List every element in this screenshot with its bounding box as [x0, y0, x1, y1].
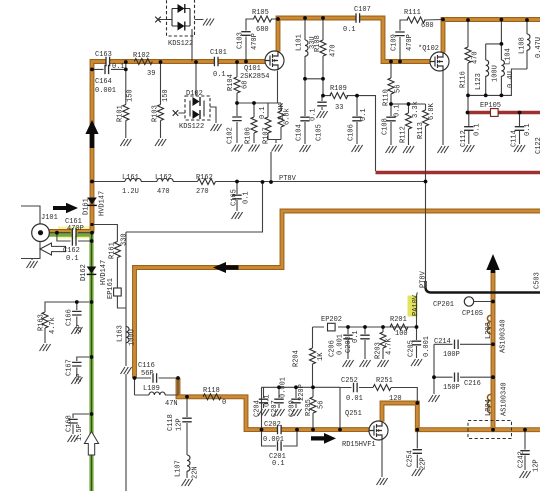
svg-text:CP10S: CP10S	[462, 310, 483, 318]
svg-text:22N: 22N	[192, 466, 200, 479]
svg-text:470P: 470P	[251, 33, 259, 50]
svg-text:0: 0	[222, 399, 226, 407]
svg-text:CP201: CP201	[433, 301, 454, 309]
svg-text:1K: 1K	[317, 352, 325, 361]
svg-text:150: 150	[162, 89, 170, 102]
svg-text:C207: C207	[271, 400, 279, 417]
svg-text:R110: R110	[383, 89, 391, 106]
svg-text:39: 39	[147, 70, 155, 78]
svg-text:C214: C214	[434, 338, 451, 346]
svg-text:0.1: 0.1	[213, 71, 226, 79]
svg-text:C166: C166	[66, 309, 74, 326]
svg-text:4.7k: 4.7k	[49, 317, 57, 334]
svg-text:2P: 2P	[76, 374, 84, 382]
svg-text:1.2U: 1.2U	[122, 188, 139, 196]
svg-text:D162: D162	[80, 264, 88, 281]
svg-text:470P: 470P	[406, 34, 414, 51]
svg-text:R106: R106	[245, 127, 253, 144]
svg-text:L109: L109	[143, 385, 160, 393]
svg-text:R163: R163	[38, 314, 46, 331]
svg-text:D102: D102	[186, 90, 203, 98]
svg-text:L162: L162	[155, 174, 172, 182]
svg-text:680: 680	[421, 22, 434, 30]
svg-text:C108: C108	[382, 118, 390, 135]
svg-text:100U: 100U	[492, 65, 500, 82]
svg-text:D161: D161	[83, 198, 91, 215]
svg-text:L161: L161	[122, 174, 139, 182]
svg-text:270: 270	[196, 188, 209, 196]
svg-text:68: 68	[242, 81, 250, 89]
svg-text:C109: C109	[391, 34, 399, 51]
svg-text:R109: R109	[330, 85, 347, 93]
svg-text:150P: 150P	[443, 384, 460, 392]
svg-text:12P: 12P	[533, 459, 540, 472]
svg-text:0.1: 0.1	[343, 26, 356, 34]
svg-text:R104: R104	[227, 74, 235, 91]
svg-text:680: 680	[256, 26, 269, 34]
svg-text:R107: R107	[263, 127, 271, 144]
svg-text:C206: C206	[329, 340, 337, 357]
svg-text:EP105: EP105	[480, 102, 501, 110]
svg-text:C104: C104	[296, 124, 304, 141]
svg-text:56P: 56P	[141, 370, 154, 378]
svg-text:0.1: 0.1	[243, 191, 251, 204]
svg-text:0.001: 0.001	[337, 334, 345, 355]
svg-text:R161: R161	[109, 242, 117, 259]
svg-text:R111: R111	[404, 9, 421, 17]
svg-text:C114: C114	[511, 130, 519, 147]
svg-text:1.5P: 1.5P	[76, 424, 84, 441]
svg-text:470: 470	[157, 188, 170, 196]
svg-text:C165: C165	[231, 189, 239, 206]
svg-text:0.001: 0.001	[95, 87, 116, 95]
svg-text:0.1: 0.1	[112, 63, 125, 71]
svg-text:0.1: 0.1	[352, 330, 360, 343]
svg-text:AS100340: AS100340	[501, 382, 509, 416]
svg-text:C118: C118	[167, 414, 175, 431]
svg-text:EP202: EP202	[321, 316, 342, 324]
svg-text:R103: R103	[152, 105, 160, 122]
svg-text:KDS122: KDS122	[168, 40, 193, 48]
svg-text:C202: C202	[264, 421, 281, 429]
svg-text:3.3k: 3.3k	[412, 101, 420, 118]
svg-text:0.001: 0.001	[280, 377, 288, 398]
svg-text:0.1: 0.1	[524, 123, 532, 136]
svg-text:2P: 2P	[76, 325, 84, 333]
svg-text:470P: 470P	[67, 225, 84, 233]
svg-text:C242: C242	[518, 451, 526, 468]
svg-text:22P: 22P	[420, 457, 428, 470]
svg-text:R204: R204	[293, 350, 301, 367]
svg-text:C101: C101	[210, 49, 227, 57]
svg-text:C112: C112	[460, 130, 468, 147]
svg-text:0.1: 0.1	[259, 106, 267, 119]
svg-text:PA10V: PA10V	[412, 294, 420, 316]
svg-text:AS100340: AS100340	[500, 319, 508, 353]
svg-text:C252: C252	[341, 377, 358, 385]
svg-text:0.1: 0.1	[272, 460, 285, 468]
svg-text:C102: C102	[227, 127, 235, 144]
svg-text:100P: 100P	[443, 351, 460, 359]
svg-text:C205: C205	[408, 340, 416, 357]
svg-text:C116: C116	[138, 362, 155, 370]
svg-text:100U: 100U	[129, 329, 137, 346]
svg-text:R101: R101	[117, 105, 125, 122]
svg-text:2SK2854: 2SK2854	[240, 73, 269, 81]
svg-text:47N: 47N	[165, 400, 178, 408]
svg-text:0.1: 0.1	[360, 108, 368, 121]
svg-text:C254: C254	[407, 450, 415, 467]
svg-text:RD15HVF1: RD15HVF1	[342, 441, 376, 449]
svg-text:*Q102: *Q102	[418, 45, 439, 53]
svg-text:PT8V: PT8V	[279, 175, 297, 183]
svg-text:C122: C122	[535, 137, 540, 154]
svg-text:R105: R105	[252, 9, 269, 17]
svg-text:330: 330	[121, 233, 129, 246]
svg-text:12P: 12P	[176, 418, 184, 431]
svg-text:C103: C103	[237, 32, 245, 49]
svg-text:HVD147: HVD147	[99, 191, 107, 216]
svg-text:L203: L203	[485, 322, 493, 339]
svg-text:33: 33	[335, 104, 343, 112]
svg-text:R112: R112	[400, 126, 408, 143]
svg-text:L123: L123	[475, 73, 483, 90]
svg-text:R162: R162	[196, 174, 213, 182]
svg-text:R108: R108	[314, 35, 322, 52]
svg-text:R205: R205	[305, 399, 313, 416]
svg-text:R251: R251	[376, 377, 393, 385]
svg-text:R102: R102	[133, 52, 150, 60]
svg-text:100: 100	[395, 330, 408, 338]
svg-text:4.7K: 4.7K	[386, 337, 394, 355]
svg-text:470: 470	[472, 51, 480, 64]
svg-text:L104: L104	[505, 48, 513, 65]
svg-text:C162: C162	[63, 247, 80, 255]
svg-text:C216: C216	[464, 380, 481, 388]
svg-text:C163: C163	[95, 51, 112, 59]
svg-text:L108: L108	[519, 37, 527, 54]
svg-text:C105: C105	[316, 124, 324, 141]
svg-text:R203: R203	[375, 342, 383, 359]
svg-text:0.1: 0.1	[474, 123, 482, 136]
svg-text:56: 56	[318, 401, 326, 409]
svg-text:120: 120	[389, 395, 402, 403]
svg-text:6.8K: 6.8K	[428, 102, 436, 120]
svg-text:0.1: 0.1	[394, 104, 402, 117]
svg-text:C209: C209	[289, 400, 297, 417]
svg-text:C503: C503	[534, 272, 540, 289]
svg-text:56: 56	[395, 85, 403, 93]
svg-text:C107: C107	[354, 6, 371, 14]
svg-text:R113: R113	[417, 122, 425, 139]
svg-text:Q101: Q101	[244, 65, 261, 73]
svg-text:Q251: Q251	[345, 410, 362, 418]
svg-text:0.4U: 0.4U	[507, 71, 515, 88]
svg-text:R116: R116	[460, 71, 468, 88]
svg-text:0.001: 0.001	[423, 336, 431, 357]
svg-text:220P: 220P	[298, 384, 306, 401]
svg-text:C168: C168	[66, 415, 74, 432]
svg-text:PT8V: PT8V	[420, 270, 428, 288]
svg-text:0.1: 0.1	[66, 255, 79, 263]
svg-text:J101: J101	[41, 214, 58, 222]
svg-text:0.01: 0.01	[346, 395, 363, 403]
svg-text:R201: R201	[390, 316, 407, 324]
svg-text:C106: C106	[348, 124, 356, 141]
svg-text:0.1: 0.1	[310, 108, 318, 121]
svg-text:150: 150	[127, 89, 135, 102]
svg-text:L107: L107	[175, 460, 183, 477]
svg-text:6.8k: 6.8k	[284, 108, 292, 125]
svg-text:C167: C167	[66, 359, 74, 376]
svg-text:0.001: 0.001	[263, 436, 284, 444]
svg-text:470: 470	[330, 44, 338, 57]
svg-text:C204: C204	[254, 400, 262, 417]
svg-text:L101: L101	[296, 34, 304, 51]
svg-text:L163: L163	[117, 325, 125, 342]
svg-text:L204: L204	[485, 399, 493, 416]
svg-text:C164: C164	[95, 78, 112, 86]
svg-text:R118: R118	[203, 387, 220, 395]
svg-text:0.47U: 0.47U	[535, 37, 540, 58]
svg-text:EP161: EP161	[107, 278, 115, 299]
svg-text:KDS122: KDS122	[179, 123, 204, 131]
